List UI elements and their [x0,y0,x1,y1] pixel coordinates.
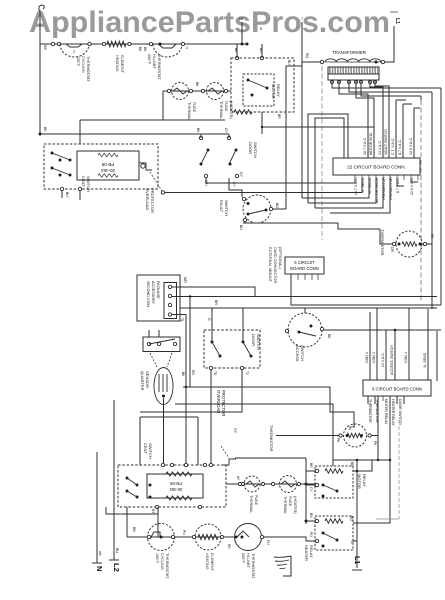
wire access up [304,308,306,313]
svg-text:BR: BR [277,114,281,119]
hilimit terminal [260,535,263,538]
terminal [189,89,192,92]
svg-text:VAULT SWITCH: VAULT SWITCH [384,128,388,155]
svg-text:THERMAL: THERMAL [219,101,223,119]
svg-text:BU: BU [305,53,309,59]
svg-text:SWITCH: SWITCH [86,176,91,192]
box cent switch area [140,416,198,418]
terminal [57,42,60,45]
svg-text:(OPTIONAL): (OPTIONAL) [278,247,282,269]
wire heater feed [389,396,391,460]
svg-text:8: 8 [260,27,262,31]
svg-text:PB-09: PB-09 [170,481,182,486]
svg-text:DOOR: DOOR [248,142,253,154]
tick L2 [109,559,119,561]
wire bundle to 22-conn [206,178,355,183]
svg-text:N. SENS.: N. SENS. [423,352,427,367]
wire x127 drop [126,507,128,537]
tick L1 [390,11,398,13]
access terminals [285,329,288,332]
wire top bus [40,43,247,45]
svg-text:THERMISTOR: THERMISTOR [269,425,274,451]
svg-text:CON 1: CON 1 [365,352,369,363]
svg-text:BR: BR [309,463,313,468]
svg-text:RELAY: RELAY [276,84,281,97]
terminal [128,42,131,45]
wire mid verticals [285,66,287,209]
wire box top feeds [236,44,238,58]
svg-text:CYCLING: CYCLING [81,56,85,73]
thermostat 200F hi-limit bottom [235,524,262,551]
wire y134 [40,133,229,135]
wire access right [324,329,441,331]
fault switch dots [247,202,250,205]
wire pin down g [413,108,415,158]
door lower arms [212,342,220,356]
wire N rail [96,452,98,563]
svg-text:wh: wh [98,551,102,556]
gray dash rail [398,420,400,519]
junction motor relay right [356,470,359,473]
svg-text:BR: BR [350,462,354,467]
svg-text:HEATER: HEATER [304,545,309,561]
svg-text:T2: T2 [245,371,249,375]
wire 6conn pin drop [396,396,398,404]
chassis dash-dot line 2 [321,66,323,240]
fault switch circle [243,195,271,223]
svg-text:DOOR: DOOR [251,334,256,346]
svg-text:DOOR SWITCH: DOOR SWITCH [398,399,402,425]
svg-text:BK: BK [327,334,331,339]
svg-text:CON 1: CON 1 [372,352,376,363]
overload dashed link [150,172,162,191]
svg-text:CON 4: CON 4 [404,352,408,363]
svg-text:30-462: 30-462 [100,168,115,173]
motor contacts [126,477,129,480]
fuse2 contact [208,88,222,94]
quarter conn pins [147,342,150,345]
svg-text:BN: BN [309,513,313,518]
heater relay coil [325,519,343,523]
svg-text:SENSOR: SENSOR [145,371,150,388]
svg-text:ELEMENT: ELEMENT [120,55,124,74]
svg-text:10.7 V.A.C.: 10.7 V.A.C. [363,137,367,155]
access dots [298,331,301,334]
svg-text:CENT: CENT [81,176,86,187]
terminal [167,89,170,92]
heater relay terminals [315,519,318,522]
terminal [297,482,300,485]
wire thermal fuse row [163,90,231,92]
wire y458 edge [235,457,306,459]
relay coil [234,110,252,114]
wire fault bottom stub [244,222,246,223]
overload protector symbol [139,163,152,170]
quarter sensor body [154,368,173,405]
wire second coin pin1 [172,287,255,297]
wire motor relay NO up [353,460,372,471]
thermal fuse bottom 1 [244,476,260,492]
svg-text:THERMAL: THERMAL [249,495,253,513]
svg-text:HEATER RELAY: HEATER RELAY [391,399,395,426]
wire quarter right 2 [175,404,333,460]
wire BR top [306,470,315,472]
box second coin package [137,275,180,321]
wire pin down b [356,84,374,158]
svg-text:PK: PK [373,441,377,446]
svg-text:155°F: 155°F [155,553,159,564]
node G hook top-left [39,5,44,12]
svg-text:MOTER RELAY: MOTER RELAY [384,399,388,425]
motor box top terminals [161,463,164,466]
svg-text:THERMOSTAT: THERMOSTAT [86,56,90,82]
svg-text:THERMOSTAT: THERMOSTAT [251,553,255,579]
svg-text:THERMAL: THERMAL [283,496,287,514]
svg-text:6 CIRCUIT BOARD CONN: 6 CIRCUIT BOARD CONN [372,387,422,392]
wire thermistor lower right [371,435,378,437]
terminal [149,42,152,45]
svg-text:L1: L1 [394,18,400,24]
relay contact dots [247,79,250,82]
svg-text:THERMAL: THERMAL [187,102,191,120]
svg-text:8.7 V.A.C.: 8.7 V.A.C. [398,139,402,155]
quarter sensor bars [158,374,160,392]
svg-text:6 CIRCUIT: 6 CIRCUIT [294,260,315,265]
svg-text:PACKAGE: PACKAGE [156,281,160,299]
svg-text:BN: BN [132,527,136,532]
wire right rail C [420,96,422,100]
wire door ups [211,308,213,342]
svg-text:2: 2 [73,50,75,54]
svg-text:FUSE: FUSE [254,495,258,506]
wire pin down c [370,84,383,158]
junction x306 [305,483,308,486]
thermal fuse 2 (heater) [207,83,224,100]
svg-text:PK: PK [336,438,340,443]
transformer primary coil [325,59,381,62]
svg-text:QUARTER: QUARTER [140,371,145,391]
heater relay arm [323,533,337,540]
svg-text:BU: BU [239,225,243,230]
svg-text:SWITCH: SWITCH [148,443,153,459]
wire pin down d [375,84,389,158]
wire fault right [273,208,286,210]
svg-text:BOARD CONN: BOARD CONN [290,266,318,271]
svg-text:RD: RD [227,544,231,549]
svg-text:OVERLOAD: OVERLOAD [145,188,150,210]
connector 6 circuit board conn (lower) box [363,380,431,396]
svg-text:RELAY: RELAY [362,474,367,487]
door lower terminals [209,366,212,369]
svg-text:TRANSFORMER: TRANSFORMER [332,50,366,55]
svg-text:GY: GY [239,172,243,178]
svg-text:C.T. V.A.C.: C.T. V.A.C. [391,138,395,155]
ext conn stubs [297,274,299,280]
access arm [299,332,316,336]
svg-text:G: G [207,318,211,321]
fault switch terminals [242,197,245,200]
wire L1 drop [385,26,394,62]
svg-text:22 CIRCUIT BOARD CONN.: 22 CIRCUIT BOARD CONN. [347,165,406,170]
svg-text:GY: GY [224,128,228,134]
svg-text:BK: BK [43,127,47,132]
wire therm drop [367,396,369,404]
inner contact box [243,74,274,106]
quarter funnel [150,353,157,367]
svg-text:155°F: 155°F [76,56,80,67]
svg-text:PU: PU [309,532,313,537]
junction dots top bus right [241,43,244,46]
thermistor lower [344,424,367,447]
svg-text:BK: BK [195,82,199,87]
motor relay terminals lower [315,469,318,472]
svg-text:2: 2 [186,46,188,50]
wire right rail A [440,88,442,305]
svg-text:FUSE: FUSE [224,101,228,112]
cent coil marks [98,153,118,157]
terminal [261,482,264,485]
gray horiz [376,518,399,520]
svg-text:7: 7 [301,17,303,21]
svg-text:N: N [95,566,104,571]
svg-text:BU: BU [65,192,69,197]
wire hilimit to heater relay [264,537,315,541]
transformer pin block [328,74,379,80]
motor coil top [166,472,192,476]
wire pin down a [339,84,368,158]
tick L1 bottom [352,569,362,571]
wire second coin pin2 [172,296,437,298]
svg-text:BU: BU [287,60,291,65]
svg-text:FUSE: FUSE [192,102,196,113]
thermistor dots [398,243,401,246]
terminal bottom [60,187,63,190]
relay box heater [315,516,353,550]
wire y460 bus [333,459,390,461]
svg-text:RD: RD [191,370,195,375]
wire door T1 drop [210,370,212,465]
wire door pole1 down [205,178,207,183]
svg-text:CY: CY [309,487,313,492]
relay contact arm [248,80,267,88]
thermal fuse bottom 2 [280,476,297,493]
wire y120 [79,120,81,144]
thermistor terminals [392,242,395,245]
wire transformer primary feed [302,61,320,63]
wire CY [306,484,315,486]
svg-text:DR: DR [390,247,394,252]
chassis dash-dot line [420,100,422,300]
relay box motor (upper) [231,58,294,112]
wire gy [161,192,163,194]
thermistor lower dots [346,434,349,437]
svg-text:L1: L1 [353,556,360,564]
wire bottom row [127,536,234,538]
connector quarter box [143,337,180,352]
transformer secondary winding [328,67,379,74]
second coin pins [168,285,171,288]
svg-text:RD: RD [349,516,353,521]
svg-text:PK: PK [430,234,434,239]
svg-text:22.6 V.A.C.: 22.6 V.A.C. [409,137,413,155]
motor arms [127,478,137,485]
svg-text:HI-LIMIT: HI-LIMIT [152,54,156,69]
svg-text:BK: BK [196,128,200,133]
6conn bottom pins [367,396,369,401]
svg-text:ACCESSORY: ACCESSORY [151,281,155,305]
svg-text:MOTOR: MOTOR [357,474,362,489]
motor relay dots lower [322,484,325,487]
svg-text:FAULT: FAULT [219,200,224,213]
svg-text:CYCLING: CYCLING [160,553,164,570]
svg-text:PU: PU [182,530,186,535]
motor relay arm lower [323,485,337,491]
wire quarter right 1 [183,387,354,427]
svg-text:EXTERNAL MOUNT: EXTERNAL MOUNT [268,247,272,283]
fuse contact [173,88,187,94]
svg-text:24 V.A.C.: 24 V.A.C. [378,140,382,155]
wires into 6conn top [369,312,371,381]
overload symbol lower [222,459,236,465]
heating element resistor b [198,534,218,539]
fuse contact b1 [246,481,259,487]
heater relay dots [322,532,325,535]
svg-text:200°F: 200°F [241,553,245,564]
svg-text:FU: FU [266,540,270,545]
wire pin to far right 2 [349,84,432,92]
connector 6 circuit board conn (external) box [285,257,324,274]
svg-text:AppliancePartsPros.com: AppliancePartsPros.com [29,7,390,39]
wire door pole feeds [200,134,202,138]
svg-text:SWITCH: SWITCH [253,142,258,158]
svg-text:TD: TD [213,371,217,376]
svg-text:BK: BK [181,372,185,377]
terminal [102,42,105,45]
wire BN [306,520,315,522]
relay box motor lower [315,466,353,498]
switch box centrifugal [44,144,158,189]
svg-text:ACCESS: ACCESS [295,345,300,362]
element terminals [192,535,195,538]
wire pin to far right 1 [332,84,441,88]
svg-text:L2: L2 [112,563,121,572]
wire y305 right [436,331,438,381]
quarter conn arm [149,339,175,344]
terminal [238,482,241,485]
wire door pole2 down [229,178,242,197]
svg-text:(HEATER): (HEATER) [229,101,233,119]
thermistor upper right [396,231,422,257]
svg-text:24 V.A.C.: 24 V.A.C. [381,352,385,367]
svg-text:THERMOSTAT: THERMOSTAT [165,553,169,579]
svg-text:(HEATER): (HEATER) [293,496,297,514]
svg-text:250°F: 250°F [147,54,151,65]
svg-text:THERMISTOR: THERMISTOR [380,229,385,255]
svg-text:MOTOR 5010: MOTOR 5010 [369,133,373,155]
door switch pole 2 [227,136,230,139]
svg-text:SWITCH: SWITCH [224,200,229,216]
svg-text:SECOND COIN: SECOND COIN [146,281,150,307]
wire 22conn pin down h [397,178,404,186]
svg-text:BR: BR [214,300,218,305]
wire long y308 [180,307,437,309]
svg-text:BU: BU [115,548,119,553]
svg-text:ACCESS SWITCH: ACCESS SWITCH [390,345,394,375]
svg-text:HI-LIMIT: HI-LIMIT [246,553,250,568]
cycling contact b [151,532,160,537]
door switch pole 1 [199,136,202,139]
quarter sensor contact [162,395,165,398]
thermostat 155F cycling (top) [60,44,89,57]
junction dot [375,61,378,64]
svg-text:FUSE: FUSE [288,496,292,507]
svg-text:BK: BK [43,45,47,51]
terminal [224,89,227,92]
svg-text:OVERLOAD: OVERLOAD [216,390,221,413]
wire door T2 drop [140,370,242,412]
door lower dots [211,341,214,344]
hilimit contact b [237,531,249,537]
wire thermistor right [427,243,432,245]
wire heater right [353,540,357,542]
terminal transformer right [381,60,384,63]
wire x306 rail [305,458,307,524]
switch box door (lower) [204,330,260,368]
wire box to 7-stub [294,65,302,67]
ground symbol [274,556,291,569]
thermistor lower terminals [339,434,342,437]
pin stub 7 [301,22,303,62]
svg-text:GY: GY [233,428,237,434]
wire pin down e [395,100,397,158]
inner box PB-09 lower [147,474,203,498]
svg-text:HEATING: HEATING [115,55,119,72]
fuse contact b2 [281,481,295,487]
wire pin to far right 3 [361,84,421,96]
motor coil bottom [166,496,192,500]
transformer pins [331,81,334,84]
svg-text:CENT: CENT [143,443,148,454]
motor relay coil lower [325,469,343,473]
wire thermal row bottom [226,483,317,485]
thermostat cycling bottom [148,524,175,551]
wire right rail B [431,92,433,243]
wire L2 rail [113,400,115,560]
cent switch contacts [51,152,54,155]
terminal top 2 [260,56,263,59]
svg-text:THERMISTOR: THERMISTOR [368,399,372,423]
svg-text:HEATING: HEATING [205,553,209,570]
wire box bottom drop [261,112,263,134]
wire conn stubs [148,330,150,337]
wire drop RD [189,297,191,388]
thermostat 250F hi-limit (top) [153,44,182,57]
svg-text:THERMOSTAT: THERMOSTAT [157,54,161,80]
terminal [51,42,54,45]
thermistor lower resistor [347,433,362,437]
svg-text:CY: CY [232,182,236,187]
svg-text:RELAY: RELAY [309,545,314,558]
contact in thermostat [66,44,82,47]
wire left rail [39,10,41,134]
svg-text:30-462: 30-462 [169,487,183,492]
wire jog b [315,118,344,208]
wire second coin pin4 [172,315,186,466]
wire mid stub [106,507,158,514]
svg-text:TL: TL [180,318,184,322]
overload dash link lower [221,446,229,458]
wire thermistor lower left [276,435,339,437]
